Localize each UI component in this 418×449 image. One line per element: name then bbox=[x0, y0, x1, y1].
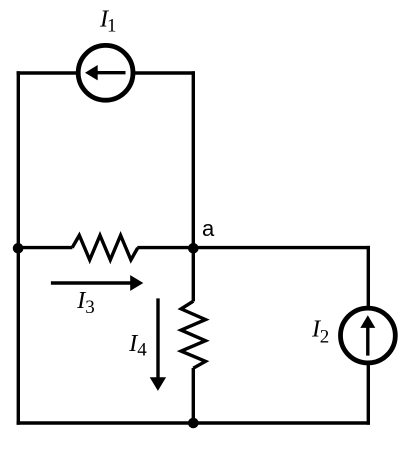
wire: middle horizontal right segment (resistor to right rail) bbox=[137, 246, 370, 249]
junction dot at bottom of vertical resistor branch bbox=[188, 418, 199, 429]
horizontal resistor bbox=[72, 235, 138, 260]
wire: top horizontal (through I1 source) bbox=[17, 71, 195, 74]
current source I2 (circle) bbox=[341, 308, 396, 363]
current source I2 arrow (pointing up) bbox=[360, 315, 375, 355]
junction dot at left rail / middle wire bbox=[13, 243, 24, 254]
current source I1 (circle) bbox=[78, 45, 133, 100]
wire: bottom horizontal bbox=[17, 421, 370, 424]
current arrow I4 (pointing down) bbox=[150, 298, 166, 391]
wire: right vertical (through I2 source) bbox=[367, 246, 370, 425]
wire: middle horizontal left segment bbox=[17, 246, 73, 249]
wire: left vertical bbox=[17, 71, 20, 424]
wire: middle vertical upper (top loop to node a to resistor) bbox=[192, 71, 195, 301]
current arrow I3 (pointing right) bbox=[51, 275, 143, 291]
svg-text:1: 1 bbox=[107, 15, 117, 36]
current source I1 arrow (pointing left) bbox=[85, 65, 126, 80]
svg-text:a: a bbox=[202, 216, 215, 241]
svg-text:4: 4 bbox=[137, 340, 147, 361]
vertical resistor bbox=[181, 301, 205, 368]
svg-text:3: 3 bbox=[85, 297, 95, 318]
svg-text:2: 2 bbox=[320, 326, 330, 347]
wire: middle vertical lower (below resistor) bbox=[192, 368, 195, 425]
node a junction dot bbox=[188, 243, 199, 254]
